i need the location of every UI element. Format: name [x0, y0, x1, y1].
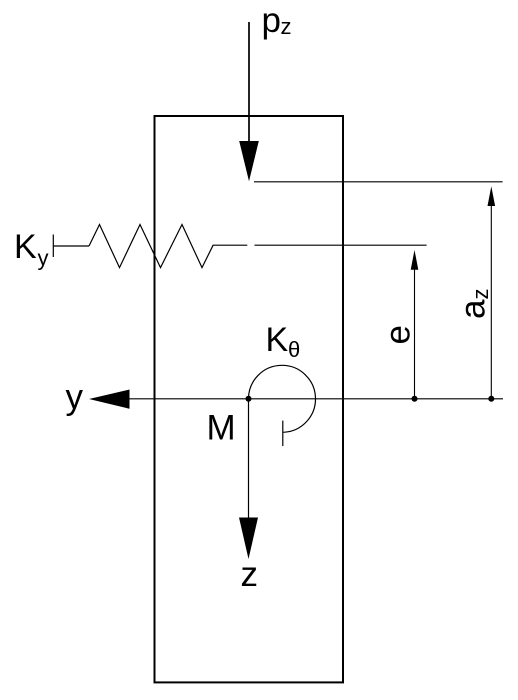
e dimension line: [414, 266, 416, 399]
a_z dimension arrowhead: [488, 186, 496, 206]
svg-text:z: z: [241, 555, 259, 594]
force p_z arrowhead: [239, 141, 259, 181]
node dot at e line: [412, 396, 418, 402]
rotational spring arc K_theta: [249, 365, 316, 432]
rotational spring end tick: [282, 421, 284, 446]
spring zigzag K_y: [89, 225, 213, 268]
z axis arrowhead: [239, 518, 258, 560]
svg-text:K: K: [266, 321, 289, 359]
a_z dimension line: [490, 203, 492, 399]
top extension line (a_z upper reference): [254, 181, 503, 183]
z axis shaft: [248, 399, 250, 521]
force p_z shaft: [248, 22, 250, 146]
svg-text:M: M: [207, 408, 236, 447]
svg-text:z: z: [281, 14, 292, 39]
svg-text:p: p: [262, 1, 281, 40]
spring right lead segment 2 (extension to e dimension): [255, 244, 427, 246]
svg-text:θ: θ: [288, 337, 300, 362]
y axis arrowhead: [89, 390, 130, 409]
svg-text:y: y: [38, 246, 49, 271]
node M (center of mass): [246, 396, 252, 402]
svg-text:e: e: [379, 325, 418, 344]
svg-text:y: y: [66, 378, 84, 417]
y axis line (through node, to right reference): [129, 398, 503, 400]
node dot at a_z line: [488, 396, 494, 402]
spring anchor tick: [52, 235, 54, 258]
e dimension arrowhead: [411, 250, 419, 270]
spring right lead segment 1: [213, 244, 247, 246]
svg-text:K: K: [14, 228, 37, 266]
beam outline: [155, 116, 344, 682]
spring left lead: [53, 245, 89, 247]
